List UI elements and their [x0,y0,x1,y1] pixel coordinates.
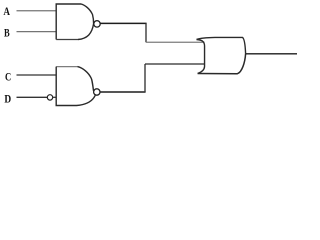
nand gate U1 bottom edge [56,39,78,41]
nand gate U1 output bubble [94,21,100,27]
wire C input [17,74,57,76]
svg-text:A: A [3,4,10,18]
wire D bubble to gate [53,96,57,98]
svg-text:B: B [4,25,10,39]
nand gate U1 body [56,4,93,40]
nand gate U2 top edge [56,66,77,68]
wire U2 output horizontal [100,91,146,93]
wire output [246,53,297,55]
nand gate U2 output bubble [94,89,100,95]
or gate U3 bottom edge [198,54,246,74]
wire riser U1 to OR top input [145,23,147,42]
wire D input [17,96,48,98]
svg-text:C: C [5,69,11,83]
wire riser U2 to OR bottom input [144,64,146,92]
nand gate U2 body [56,67,95,106]
svg-text:D: D [4,92,11,106]
wire B input [17,31,57,33]
wire OR top input horizontal [146,41,205,43]
wire A input [17,10,57,12]
inverter bubble on D input of U2 [47,95,52,100]
or gate U3 top edge [197,37,246,53]
or gate U3 back spine [197,40,205,74]
wire OR bottom input horizontal [145,63,205,65]
wire U1 output horizontal [100,22,146,24]
